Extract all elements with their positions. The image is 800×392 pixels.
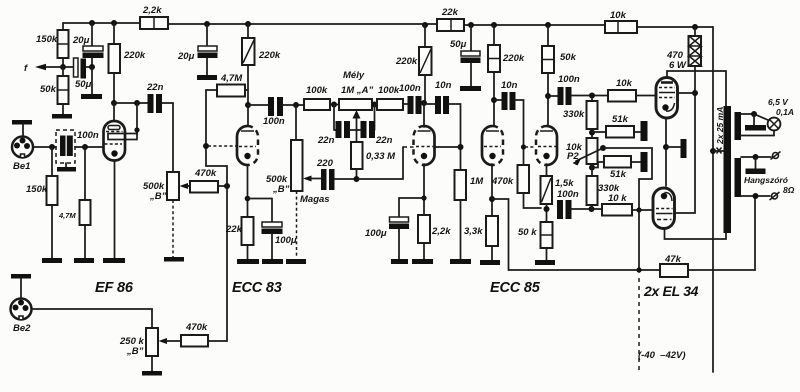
svg-text:220: 220 <box>316 158 334 169</box>
node f-line junction <box>89 64 95 94</box>
resistor 22k (rail) <box>437 7 464 31</box>
wire P2 wiper to bias rail <box>603 148 652 273</box>
wire tone output to ECC85-1 grid <box>357 147 437 179</box>
svg-text:51k: 51k <box>612 114 629 125</box>
resistor 220k (ECC85-1 anode load, slashed) <box>395 25 432 103</box>
wire EF86 screen tab <box>108 103 140 140</box>
text EF 86 <box>95 280 134 296</box>
ground (under 50u) <box>460 86 481 91</box>
text Hangszoro 8ohm <box>744 175 795 195</box>
resistor 470k (mixer ch.1) <box>190 168 230 193</box>
wire ECC85-1 grid tie <box>434 146 461 148</box>
svg-text:2,2k: 2,2k <box>431 226 451 237</box>
resistor 1M (V3b grid leak) <box>455 170 485 259</box>
svg-text:10 k: 10 k <box>608 193 627 204</box>
svg-text:470k: 470k <box>491 176 514 187</box>
resistor 47k (feedback) <box>660 254 688 277</box>
svg-text:„B”: „B” <box>126 346 144 357</box>
node f tap with arrow <box>24 63 66 74</box>
resistor 2.2k (ECC85-1 cathode) <box>418 215 451 259</box>
terminal speaker bottom <box>770 192 780 200</box>
tube EL34 upper (V5) <box>656 78 678 119</box>
svg-text:EF 86: EF 86 <box>95 280 134 296</box>
svg-text:6 W: 6 W <box>669 60 687 71</box>
ground (above Be2) <box>11 274 31 299</box>
svg-text:330k: 330k <box>563 109 585 120</box>
potentiometer 1.5k (cathode, slashed) <box>541 164 579 222</box>
svg-text:22n: 22n <box>317 135 335 146</box>
text ECC 83 <box>232 280 282 296</box>
svg-text:100n: 100n <box>77 130 99 141</box>
svg-text:2x EL 34: 2x EL 34 <box>643 283 699 299</box>
svg-text:6,5 V: 6,5 V <box>768 97 789 107</box>
capacitor 20u (rail decoupling 1) <box>72 23 104 67</box>
potentiometer 500k Magas (treble) <box>266 105 330 258</box>
svg-text:10n: 10n <box>435 80 452 91</box>
resistor 0.33M (bass wiper) <box>351 142 396 182</box>
resistor 220k (V3b anode load) <box>488 25 525 127</box>
wire EL34 cathodes <box>663 118 687 186</box>
svg-text:3,3k: 3,3k <box>464 226 483 237</box>
wire top supply rail <box>63 23 713 27</box>
capacitor 100n (ECC83-1 coupling) <box>263 97 304 127</box>
svg-text:Magas: Magas <box>300 194 330 205</box>
text 2x EL 34 <box>643 283 699 299</box>
resistor 220k (EF86 anode load) <box>109 23 146 103</box>
ground (ECC85-2 cathode) <box>535 260 555 265</box>
potentiometer 10k P2 (bias balance) <box>566 138 606 176</box>
resistor 470k (ECC85-2 grid leak) <box>491 144 541 208</box>
capacitor 10n (V3b coupling) <box>494 80 524 165</box>
svg-text:8Ω: 8Ω <box>783 185 795 195</box>
svg-text:220k: 220k <box>123 50 146 61</box>
svg-text:0,1A: 0,1A <box>776 107 794 117</box>
svg-text:100μ: 100μ <box>365 228 387 239</box>
wire EF86 anode node <box>111 100 148 121</box>
svg-text:22k: 22k <box>441 7 459 18</box>
wire ECC83-1 cathode <box>245 165 272 217</box>
svg-text:10n: 10n <box>501 80 518 91</box>
tube ECC85 second half (V3b) <box>482 126 503 165</box>
wire bias supply (dashed) <box>638 278 686 372</box>
capacitor 50u (rail decoupling right) <box>450 25 481 86</box>
wire Be1 to grid network <box>34 144 105 150</box>
wire screen rail <box>676 66 698 213</box>
svg-text:47k: 47k <box>664 254 682 265</box>
wire B+ centre tap <box>710 27 724 372</box>
svg-text:220k: 220k <box>258 50 281 61</box>
lamp 6.3V 0.1A <box>768 97 794 130</box>
svg-text:50 k: 50 k <box>518 227 537 238</box>
svg-text:220k: 220k <box>395 56 418 67</box>
wire mixer node down to ch.2 <box>226 186 228 341</box>
svg-text:0,33 M: 0,33 M <box>366 151 396 162</box>
resistor 3.3k (V3b cathode) <box>464 216 498 260</box>
capacitor bar (EL34-2 grid) <box>641 152 648 172</box>
tube EF86 (V1) <box>104 121 126 258</box>
resistor 22k (ECC83-1 cathode) <box>225 217 254 259</box>
svg-text:50μ: 50μ <box>450 39 467 50</box>
svg-text:50μ: 50μ <box>75 79 92 90</box>
text ECC 85 <box>490 280 541 296</box>
svg-text:50k: 50k <box>40 84 57 95</box>
resistor 470 6W (screen dropper) <box>666 27 701 71</box>
capacitor 100u (ECC85-1 cathode bypass) <box>365 217 409 259</box>
resistor 330k (upper bias) <box>563 96 598 139</box>
svg-text:f: f <box>24 63 28 74</box>
node ECC83-1 anode <box>245 102 268 108</box>
ground (under 250k pot) <box>142 371 162 376</box>
svg-text:150k: 150k <box>36 34 58 45</box>
capacitor 50u (series, f line) <box>63 58 92 90</box>
svg-text:1M: 1M <box>470 176 484 187</box>
node rail junction dots <box>89 20 698 30</box>
svg-text:(-40 –42V): (-40 –42V) <box>638 350 686 361</box>
ground (under input cap box) <box>57 167 76 172</box>
capacitor 100n (shielded input cap) <box>56 130 99 167</box>
svg-text:20μ: 20μ <box>177 51 195 62</box>
ground (under 20u/50u node) <box>81 94 102 99</box>
svg-text:220k: 220k <box>502 53 525 64</box>
svg-text:100n: 100n <box>263 116 285 127</box>
capacitor 100u (ECC83-1 cathode bypass) <box>262 199 297 260</box>
svg-text:Be1: Be1 <box>13 161 30 172</box>
capacitor 100n (EL34 coupling) <box>548 74 608 105</box>
svg-text:22n: 22n <box>146 82 164 93</box>
resistor 470k (mixer ch.2) <box>181 322 227 347</box>
resistor 10k (EL34-2 grid stopper) <box>602 204 653 216</box>
resistor 150k (grid leak Be1) <box>26 147 58 258</box>
svg-text:100n: 100n <box>557 189 579 200</box>
ground (under 50k) <box>52 114 72 119</box>
transformer output primary <box>724 106 732 233</box>
potentiometer 500k B (volume ch.1) <box>143 172 190 257</box>
wire negative feedback line <box>509 196 756 270</box>
transformer secondary speaker <box>735 154 772 199</box>
resistor 50k (input divider bottom) <box>40 67 69 114</box>
svg-text:51k: 51k <box>610 169 627 180</box>
ground (under 500k pot) <box>164 257 184 262</box>
svg-text:4,7M: 4,7M <box>220 73 243 84</box>
svg-text:100n: 100n <box>399 83 421 94</box>
svg-text:2,2k: 2,2k <box>142 5 162 16</box>
wire mixer node to ECC83 grid <box>203 90 236 186</box>
wire Be2 to 250k pot <box>32 309 153 328</box>
svg-text:22n: 22n <box>375 135 393 146</box>
svg-text:1,5k: 1,5k <box>555 178 574 189</box>
ground (V3b cathode) <box>480 260 500 265</box>
svg-text:470k: 470k <box>185 322 208 333</box>
connector Be1 (input socket) <box>12 137 33 173</box>
svg-text:10k: 10k <box>610 10 627 21</box>
wire EL34-1 anode to transformer <box>667 71 726 106</box>
svg-text:ECC 85: ECC 85 <box>490 280 541 296</box>
capacitor 22n (bass right) <box>357 105 393 147</box>
terminal speaker top <box>771 152 781 160</box>
resistor 4.7M (feedback ECC83-1) <box>206 73 248 97</box>
capacitor bar (EL34-1 grid) <box>641 121 648 141</box>
svg-text:P2: P2 <box>567 151 579 162</box>
ground (row under EF86 cathode) <box>42 258 125 263</box>
svg-text:10k: 10k <box>616 78 633 89</box>
connector Be2 (input socket 2) <box>11 299 32 335</box>
svg-text:„B”: „B” <box>149 191 167 202</box>
resistor 51k (EL34-2 grid) <box>592 156 641 180</box>
svg-text:150k: 150k <box>26 184 48 195</box>
svg-text:100k: 100k <box>306 85 328 96</box>
svg-text:22k: 22k <box>225 224 243 235</box>
svg-text:100k: 100k <box>378 85 400 96</box>
svg-text:Mély: Mély <box>343 70 365 81</box>
ground (ECC85-1 area) <box>391 259 471 264</box>
capacitor 220 (treble) <box>316 158 357 190</box>
transformer secondary heater <box>735 111 775 140</box>
tube ECC85 first half (V3a) <box>414 126 435 165</box>
resistor 100k (tone 1) <box>304 85 339 110</box>
tube ECC83 first half (V2a) <box>237 126 258 165</box>
capacitor 22n (bass left) <box>317 105 357 147</box>
capacitor 100n (tone input coupling) <box>399 83 424 114</box>
resistor 10k (EL34-1 grid stopper) <box>608 78 656 102</box>
svg-text:ECC 83: ECC 83 <box>232 280 282 296</box>
capacitor 22n (EF86 coupling) <box>146 82 173 172</box>
potentiometer 250k B (volume ch.2) <box>119 328 181 371</box>
tube EL34 lower (V6, inverted) <box>653 188 675 229</box>
wire ECC85-1 cathode <box>399 164 427 217</box>
resistor 50k (ECC85-2 anode load) <box>542 25 577 127</box>
resistor 51k (EL34-1 grid) <box>592 114 641 138</box>
resistor 220k (ECC83-1 anode load, slashed) <box>242 24 281 127</box>
resistor 330k (lower bias) <box>587 176 628 209</box>
svg-text:50k: 50k <box>560 52 577 63</box>
resistor 2.2k (rail) <box>140 5 168 29</box>
svg-text:100n: 100n <box>558 74 580 85</box>
capacitor 10n (ECC85-1 coupling) <box>424 80 464 170</box>
resistor 150k (input divider top) <box>36 23 69 67</box>
wire EL34-2 anode to transformer <box>665 229 727 240</box>
tube ECC85 output half (V4) <box>536 126 557 165</box>
text 2x 25 mA <box>715 107 725 145</box>
svg-text:1M „A”: 1M „A” <box>341 85 373 96</box>
resistor 10k (rail) <box>605 10 637 33</box>
potentiometer 1M A Mely (bass) <box>339 70 373 142</box>
svg-text:20μ: 20μ <box>72 35 90 46</box>
svg-text:Be2: Be2 <box>13 323 31 334</box>
svg-text:Hangszóró: Hangszóró <box>744 175 788 185</box>
node ECC85-1 anode <box>421 100 427 127</box>
svg-text:470k: 470k <box>194 168 217 179</box>
ground (under 20u 2) <box>197 75 217 80</box>
resistor 4.7M (EF86 grid leak) <box>58 147 91 258</box>
svg-text:4,7M: 4,7M <box>58 211 76 220</box>
ground (above Be1) <box>12 120 32 137</box>
capacitor 100n (feedback blocking) <box>557 200 602 219</box>
svg-text:100μ: 100μ <box>275 235 297 246</box>
wire V3b cathode + feedback node <box>489 164 509 270</box>
ground (ECC83 cathode row) <box>237 259 306 264</box>
resistor 100k (tone 2) <box>372 85 404 110</box>
resistor 50k (cathode lower) <box>518 222 553 260</box>
svg-text:„B”: „B” <box>272 184 290 195</box>
capacitor 20u (rail decoupling 2) <box>177 24 218 75</box>
